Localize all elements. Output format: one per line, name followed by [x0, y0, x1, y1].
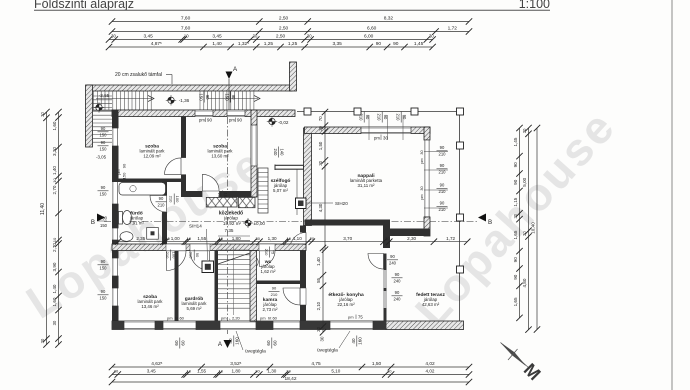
svg-text:1,65: 1,65 — [513, 297, 518, 306]
section marker B left — [91, 214, 105, 227]
svg-text:4,80: 4,80 — [522, 278, 527, 287]
svg-text:210: 210 — [271, 292, 278, 297]
bottom wall dark pier 5 — [300, 321, 330, 330]
door arc gardrob (swings into gardrob) — [190, 251, 210, 271]
exterior stair treads top-right flight — [200, 91, 254, 110]
door arc szoba3 (swings into szoba3) — [167, 251, 187, 271]
left wall interior window labels 90/150 column — [98, 126, 109, 138]
door arc in partition (swings into szoba1) — [165, 158, 182, 175]
window bottom wall kitchen — [330, 321, 373, 330]
svg-text:150: 150 — [100, 133, 108, 138]
stair upper flight crosshatched block 1 — [206, 197, 237, 207]
svg-text:10: 10 — [184, 34, 189, 39]
window mullion lines — [369, 115, 403, 140]
svg-text:SIH14: SIH14 — [189, 224, 202, 229]
bathtub — [119, 183, 166, 196]
svg-text:90: 90 — [159, 196, 164, 201]
bottom dim chain row 3 total 18,42 — [109, 376, 472, 385]
svg-text:pm: pm — [260, 316, 266, 321]
terrace post top 1 — [304, 108, 311, 115]
svg-text:90: 90 — [440, 145, 445, 150]
svg-text:90: 90 — [101, 126, 106, 131]
svg-text:90: 90 — [205, 95, 210, 100]
window left wall furdo lower — [112, 228, 119, 240]
svg-text:90: 90 — [383, 115, 388, 120]
svg-text:4,75: 4,75 — [311, 361, 321, 367]
svg-text:30: 30 — [52, 320, 57, 325]
exterior stair treads top-left flight (vertical lines) — [93, 91, 293, 110]
svg-text:ht 60: ht 60 — [268, 316, 278, 321]
retaining wall riser right end — [290, 62, 297, 91]
szoba2 right wall (hatched) — [251, 110, 257, 197]
toilet — [119, 212, 123, 225]
right vertical dim chain 3 (10,40) — [531, 125, 541, 333]
svg-text:1,50: 1,50 — [372, 361, 382, 367]
svg-text:5,10: 5,10 — [331, 369, 340, 374]
szelfogo east boundary thin line — [296, 170, 298, 216]
svg-text:1,45: 1,45 — [414, 41, 424, 47]
nappali bottom wall right segment (lower step) — [383, 229, 430, 237]
svg-text:-2,55: -2,55 — [99, 93, 110, 98]
exterior stair left flight treads (horizontal lines) — [93, 96, 113, 142]
svg-text:90: 90 — [237, 118, 242, 123]
nappali right wall long window strip — [424, 140, 430, 217]
svg-text:210: 210 — [188, 252, 193, 259]
svg-text:2,70: 2,70 — [52, 185, 57, 194]
svg-text:pm: pm — [420, 194, 424, 199]
wc washbasin — [257, 258, 259, 266]
svg-text:210: 210 — [439, 207, 447, 212]
furdo door label 90/210 — [156, 196, 167, 208]
svg-text:90: 90 — [440, 201, 445, 206]
svg-text:30: 30 — [385, 236, 390, 241]
entrance glass door double line — [275, 165, 304, 171]
stair upper flight crosshatched block 2 — [238, 197, 255, 207]
title underline — [34, 9, 550, 11]
svg-text:5,07 m²: 5,07 m² — [273, 188, 288, 193]
svg-text:8,32: 8,32 — [384, 16, 394, 22]
svg-text:30: 30 — [255, 369, 260, 374]
dim chain top row 1 (7,60 / 2,50 / 8,32) — [109, 16, 472, 25]
kitchen terrace door label 90/240 — [387, 254, 398, 266]
svg-text:160: 160 — [235, 337, 240, 345]
svg-text:3,90: 3,90 — [52, 262, 57, 271]
floor drain SIH14 square — [202, 261, 214, 273]
svg-text:pm: pm — [221, 316, 227, 321]
window bottom wall szoba3 right / gardrob — [163, 321, 196, 330]
kitchen-terrace divider wall — [384, 254, 387, 322]
svg-text:140: 140 — [280, 149, 285, 157]
svg-text:3,45: 3,45 — [212, 34, 222, 40]
right vertical dim chain 1 (windows) — [513, 125, 523, 321]
uvegtegla label 2 with leader — [317, 331, 350, 354]
floor drain SIH20 square — [296, 198, 307, 209]
svg-text:ht 60: ht 60 — [175, 316, 185, 321]
svg-text:100: 100 — [175, 196, 180, 203]
left exterior wall with windows — [112, 110, 119, 330]
kitchen terrace window 1 in divider — [384, 270, 386, 288]
nappali right wall top piece (hatched) — [424, 127, 430, 140]
svg-text:30: 30 — [429, 34, 434, 39]
svg-text:30: 30 — [522, 128, 527, 133]
bottom wall dark pier 4 — [256, 321, 273, 330]
svg-text:pm: pm — [420, 158, 424, 163]
svg-text:150: 150 — [122, 172, 127, 179]
svg-text:⌞ 2,20: ⌞ 2,20 — [229, 316, 241, 321]
bottom wall dark pier 3 — [196, 321, 220, 330]
svg-text:5,69 m²: 5,69 m² — [187, 306, 202, 311]
window size rotated labels below bottom wall — [174, 338, 186, 349]
svg-text:60: 60 — [181, 340, 186, 346]
terrace roof edge right line — [459, 112, 461, 322]
dim chain top row 4 (4,87/1,40/1,32/1,25/1,25/3,35/90/90/1,45) — [106, 41, 436, 50]
svg-text:10: 10 — [186, 369, 191, 374]
szoba1-furdo wall — [112, 179, 181, 183]
svg-text:30: 30 — [318, 160, 323, 165]
window labels pm 90 under top wall — [199, 118, 212, 123]
retaining wall top horizontal strip (hatched) — [87, 85, 292, 91]
door gap kamra — [259, 244, 275, 251]
door gap szoba3 — [166, 244, 186, 251]
svg-text:1,60: 1,60 — [52, 297, 57, 306]
nappali right wall window mullions — [424, 152, 448, 208]
kamra-kitchen wall upper stub — [300, 226, 306, 233]
interior horizontal dim chain through building — [115, 236, 471, 245]
svg-text:13,60 m²: 13,60 m² — [211, 153, 229, 158]
room label gardrob — [182, 296, 208, 311]
svg-text:1,72: 1,72 — [446, 236, 455, 241]
label SIH14 with leader — [189, 224, 208, 261]
svg-text:1,40: 1,40 — [52, 284, 57, 293]
svg-text:4,30: 4,30 — [318, 203, 323, 212]
svg-text:210: 210 — [439, 152, 447, 157]
room label furdo — [129, 211, 145, 226]
svg-text:240: 240 — [273, 149, 278, 157]
right vertical dim chain 2 (5,00/30/4,80) — [522, 125, 532, 333]
window left wall furdo upper — [112, 181, 119, 204]
window left wall szoba3 lower — [112, 288, 119, 306]
svg-text:11,40: 11,40 — [40, 203, 46, 215]
kamra-kitchen wall lower part — [300, 249, 306, 322]
svg-text:20: 20 — [310, 236, 315, 241]
window in top wall x227 — [227, 110, 245, 117]
pm 30 rotated labels next to nappali right wall — [420, 150, 424, 163]
stair break line diagonal — [218, 253, 250, 264]
exterior stair walk line arrows — [96, 96, 260, 102]
window size labels 90/150 above top wall — [198, 92, 210, 103]
svg-text:pm: pm — [199, 118, 205, 123]
svg-text:30: 30 — [111, 34, 116, 39]
svg-text:-1,36: -1,36 — [179, 98, 190, 103]
kamra door label 90/210 — [269, 286, 280, 298]
room label szoba 13,60 — [208, 144, 234, 159]
level mark -1,36 — [166, 95, 190, 105]
svg-text:10: 10 — [286, 369, 291, 374]
svg-text:210: 210 — [439, 170, 447, 175]
door label 90/210 gardrob door — [188, 250, 200, 261]
svg-text:18,42: 18,42 — [284, 376, 296, 382]
svg-text:240: 240 — [394, 297, 402, 302]
terrace post corner — [457, 108, 464, 115]
door label 100/210 szoba3 door — [165, 250, 177, 261]
svg-text:30: 30 — [383, 136, 388, 141]
window bottom wall szoba3 left — [124, 321, 155, 330]
svg-text:1,25: 1,25 — [288, 41, 298, 47]
kamra door gap in kitchen wall — [300, 288, 306, 305]
svg-text:6,00: 6,00 — [364, 34, 374, 40]
kozlekedo south wall (hatched) with door gaps — [112, 244, 306, 251]
svg-text:1,62 m²: 1,62 m² — [261, 269, 276, 274]
svg-text:90: 90 — [440, 163, 445, 168]
svg-text:90: 90 — [272, 286, 277, 291]
svg-text:10: 10 — [52, 237, 57, 242]
svg-text:40: 40 — [351, 338, 356, 344]
svg-text:150: 150 — [100, 192, 108, 197]
svg-text:90: 90 — [101, 259, 106, 264]
svg-text:90: 90 — [231, 95, 236, 100]
kitchen window label 90/240 (2) — [392, 290, 403, 302]
window left wall szoba3 upper — [112, 258, 119, 276]
svg-text:2,50: 2,50 — [279, 16, 289, 22]
furdo door arc (swings into furdo) — [150, 196, 167, 213]
bottom wall dark pier 2 — [155, 321, 163, 330]
svg-text:10: 10 — [52, 178, 57, 183]
svg-text:90: 90 — [376, 41, 382, 47]
radiator ladder in szelfogo — [258, 168, 268, 213]
svg-text:10: 10 — [165, 236, 170, 241]
svg-text:90: 90 — [395, 272, 400, 277]
svg-text:SIH20: SIH20 — [335, 201, 348, 206]
furdo east wall upper — [162, 182, 167, 196]
svg-text:1,30: 1,30 — [267, 369, 276, 374]
nappali bottom wall step connector — [383, 220, 390, 249]
terrace post top 2 — [354, 108, 361, 115]
terrace post top 3 — [411, 108, 418, 115]
svg-text:1,80: 1,80 — [232, 236, 241, 241]
kitchen window label 90/240 (1) — [392, 272, 403, 284]
terrace roof edge top line — [297, 111, 464, 113]
svg-text:üvegtégla: üvegtégla — [317, 348, 338, 354]
retaining wall left vertical strip — [86, 85, 93, 147]
svg-text:90: 90 — [440, 183, 445, 188]
svg-text:5,00: 5,00 — [522, 177, 527, 186]
room label wc — [260, 260, 276, 274]
svg-text:1,00: 1,00 — [171, 236, 180, 241]
svg-text:1,60: 1,60 — [52, 121, 57, 130]
svg-text:90: 90 — [395, 290, 400, 295]
door arc szoba2 (swings up into szoba2) — [202, 174, 219, 191]
svg-text:pm: pm — [229, 118, 235, 123]
door label 100/210 szoba1 door — [168, 194, 180, 205]
svg-text:150: 150 — [100, 296, 108, 301]
room label etkezo-konyha — [328, 292, 364, 307]
svg-text:2,73 m²: 2,73 m² — [263, 307, 278, 312]
svg-text:4,02: 4,02 — [425, 361, 435, 367]
svg-text:-3,05: -3,05 — [96, 155, 107, 160]
svg-text:30: 30 — [316, 326, 321, 331]
svg-text:járólap: járólap — [223, 216, 238, 221]
big window in nappali top wall — [361, 127, 411, 134]
svg-text:160: 160 — [358, 337, 363, 345]
svg-text:7,91 m²: 7,91 m² — [129, 220, 144, 225]
label SIH20 with leader — [307, 201, 349, 206]
szoba2 south wall / kozlekedo north wall segment 1 — [186, 191, 202, 197]
left inner vertical dim chain — [52, 109, 62, 348]
szoba1-szoba2 partition wall lower part — [181, 174, 186, 197]
uvegtegla label 1 with leader — [236, 331, 266, 355]
svg-text:1,45: 1,45 — [513, 137, 518, 146]
svg-text:210: 210 — [165, 252, 170, 259]
svg-text:240: 240 — [394, 279, 402, 284]
svg-text:90: 90 — [365, 115, 370, 120]
svg-text:1,15: 1,15 — [513, 197, 518, 206]
washbasin — [120, 232, 133, 242]
svg-text:90: 90 — [513, 274, 518, 280]
north arrow compass needle — [501, 343, 545, 385]
parapet labels pm under bottom wall rooms — [167, 316, 185, 321]
svg-text:30: 30 — [320, 336, 325, 341]
svg-text:10: 10 — [187, 236, 192, 241]
svg-text:2,50: 2,50 — [276, 34, 286, 40]
svg-text:7,35: 7,35 — [225, 228, 234, 233]
wc door label 75/210 rotated — [264, 247, 276, 258]
svg-text:60: 60 — [266, 340, 271, 346]
svg-text:10,40: 10,40 — [531, 222, 536, 234]
szoba2 south wall segment 2 — [219, 191, 251, 197]
svg-text:240: 240 — [389, 261, 397, 266]
svg-text:30: 30 — [307, 34, 312, 39]
svg-text:70: 70 — [318, 116, 323, 121]
svg-text:90: 90 — [195, 253, 200, 258]
svg-text:90: 90 — [101, 140, 106, 145]
svg-text:3,45: 3,45 — [147, 369, 156, 374]
terrace post right 2 — [457, 214, 464, 221]
svg-text:10: 10 — [286, 236, 291, 241]
svg-text:90: 90 — [513, 257, 518, 263]
svg-text:30: 30 — [522, 231, 527, 236]
svg-text:pm: pm — [167, 316, 173, 321]
svg-text:2,50: 2,50 — [279, 26, 289, 32]
bottom wall dark pier 6 — [373, 321, 386, 330]
top exterior wall (hatched) with two windows — [112, 110, 295, 117]
nappali left wall (hatched) — [304, 128, 312, 226]
level mark -0,02 outside entrance — [267, 116, 289, 126]
svg-text:1,40: 1,40 — [316, 257, 321, 266]
svg-text:1,72: 1,72 — [448, 26, 458, 32]
svg-text:-0,02: -0,02 — [278, 120, 289, 125]
svg-text:60: 60 — [273, 340, 278, 346]
svg-text:B: B — [91, 219, 95, 226]
svg-text:30: 30 — [318, 125, 323, 130]
szoba1-szoba2 partition wall upper part — [181, 117, 186, 158]
svg-text:40: 40 — [228, 338, 233, 344]
label 20 cm zsaluko tamfal with leader — [115, 72, 172, 84]
svg-text:3,30: 3,30 — [52, 147, 57, 156]
svg-text:210: 210 — [264, 249, 269, 256]
svg-text:1,65: 1,65 — [513, 230, 518, 239]
svg-text:22,16 m²: 22,16 m² — [337, 302, 355, 307]
svg-text:30: 30 — [255, 236, 260, 241]
svg-text:3,45: 3,45 — [144, 34, 154, 40]
svg-text:6,60: 6,60 — [367, 26, 377, 32]
svg-text:90: 90 — [402, 115, 407, 120]
door label 100/210 szoba2 door — [217, 191, 229, 202]
svg-text:1,55: 1,55 — [197, 369, 206, 374]
stair-wc wall (hatched) — [250, 251, 257, 322]
terrace bottom edge wall (hatched) — [386, 321, 464, 330]
svg-text:30: 30 — [387, 369, 392, 374]
wc-kamra wall — [257, 281, 307, 285]
svg-text:90: 90 — [101, 185, 106, 190]
svg-text:7,60: 7,60 — [181, 26, 191, 32]
svg-text:1,25: 1,25 — [264, 41, 274, 47]
dim chain top row 2 (7,60 / 2,50 / 6,60 / 1,72) — [109, 26, 472, 35]
svg-text:3,70: 3,70 — [343, 236, 352, 241]
door gap gardrob — [190, 244, 210, 251]
level mark -2,55 — [94, 93, 110, 113]
svg-text:42,63 m²: 42,63 m² — [422, 302, 440, 307]
room label szoba 12,09 — [140, 144, 166, 159]
svg-text:30: 30 — [114, 369, 119, 374]
room label szelfogo — [271, 178, 291, 193]
dim chain top row 3 (30/3,45/10/3,45/30/2,50/30/6,00/30) — [106, 34, 436, 43]
svg-text:1:100: 1:100 — [519, 0, 550, 11]
svg-text:10: 10 — [219, 236, 224, 241]
svg-text:pm: pm — [348, 315, 354, 320]
svg-text:2,70: 2,70 — [52, 243, 57, 252]
bottom dim chain row 1 — [109, 361, 472, 370]
gardrob-stair wall — [215, 251, 219, 322]
svg-text:±0,00: ±0,00 — [254, 221, 266, 226]
terrace post right 3 — [457, 266, 464, 273]
bottom exterior wall (hatched base) — [112, 321, 386, 330]
room label nappali — [350, 173, 383, 188]
svg-text:210: 210 — [168, 196, 173, 203]
svg-text:12,09 m²: 12,09 m² — [143, 153, 161, 158]
svg-text:210: 210 — [158, 203, 166, 208]
bottom wall dark pier 1 — [112, 321, 124, 330]
svg-text:210: 210 — [439, 189, 447, 194]
svg-text:90: 90 — [122, 163, 127, 168]
kozlekedo level mark and extra dims — [225, 218, 266, 233]
window bottom wall stairwell glass block — [220, 321, 256, 330]
svg-text:1,40: 1,40 — [52, 166, 57, 175]
svg-text:2,10: 2,10 — [316, 301, 321, 310]
window left wall szoba1 — [112, 128, 119, 146]
room label szoba 13,46 — [138, 294, 164, 309]
terrace post right 1 — [457, 142, 464, 149]
nappali right wall bottom piece (hatched) — [424, 217, 430, 236]
svg-text:75: 75 — [271, 250, 276, 255]
window labels 90/210 above nappali top wall — [358, 112, 370, 123]
svg-text:30: 30 — [40, 338, 45, 343]
svg-text:Földszinti alaprajz: Földszinti alaprajz — [34, 0, 134, 11]
window in top wall x195 — [195, 110, 213, 117]
svg-text:150: 150 — [100, 223, 108, 228]
stairwell lower flight treads — [218, 236, 250, 315]
svg-text:30: 30 — [513, 213, 518, 218]
entrance door label 140/240 — [273, 147, 285, 158]
furdo east wall lower — [162, 212, 167, 244]
room label fedett terasz — [416, 292, 445, 307]
svg-text:210: 210 — [395, 114, 400, 122]
svg-text:üvegtégla: üvegtégla — [245, 349, 266, 355]
svg-text:B: B — [488, 219, 492, 226]
door arc kamra — [260, 251, 276, 267]
scan artifact vertical line right side — [671, 0, 673, 390]
svg-text:90: 90 — [393, 41, 399, 47]
svg-text:30: 30 — [40, 112, 45, 117]
